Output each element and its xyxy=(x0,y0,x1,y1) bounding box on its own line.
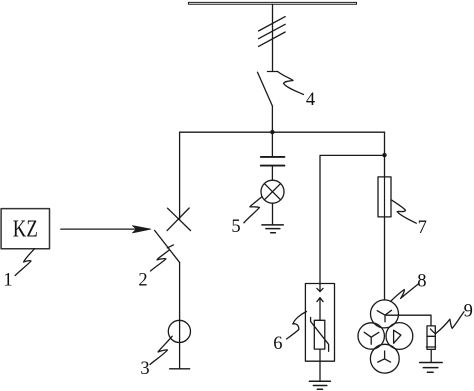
ground (arrester) xyxy=(309,381,330,389)
main horizontal wire xyxy=(180,131,385,133)
wire to damping device xyxy=(386,315,431,326)
leader 9 xyxy=(431,312,465,334)
winding Y (left) xyxy=(364,332,379,344)
wire xyxy=(272,203,274,225)
fuse 7 xyxy=(378,177,391,217)
svg-text:6: 6 xyxy=(273,334,282,354)
svg-text:2: 2 xyxy=(138,271,147,291)
wire xyxy=(271,106,273,132)
lamp 5 xyxy=(261,180,284,203)
svg-text:7: 7 xyxy=(418,218,427,238)
ground (lamp 5) xyxy=(262,225,283,233)
leader 2 xyxy=(151,250,170,271)
svg-text:3: 3 xyxy=(140,359,149,379)
leader 7 xyxy=(391,200,416,223)
three-phase slashes xyxy=(259,17,286,31)
wire xyxy=(179,262,181,369)
breaker 2 xyxy=(155,208,191,262)
junction node xyxy=(270,130,274,134)
wire branch to arrester xyxy=(320,155,385,291)
ground (9) xyxy=(420,363,443,373)
wire xyxy=(430,349,432,362)
leader 8 xyxy=(391,284,419,301)
capacitor xyxy=(261,157,285,166)
wire xyxy=(319,349,321,381)
wire xyxy=(271,132,273,156)
disconnector 4 xyxy=(258,72,278,107)
leader 1 xyxy=(15,249,34,276)
winding Y inverted (bottom) xyxy=(378,351,391,362)
wire xyxy=(271,167,273,181)
svg-text:KZ: KZ xyxy=(13,216,38,243)
control box KZ 1 xyxy=(1,209,49,249)
svg-text:8: 8 xyxy=(417,272,426,292)
leader 4 xyxy=(278,72,304,95)
surge arrester 6 xyxy=(305,284,334,362)
leader 3 xyxy=(150,336,172,364)
leader 6 xyxy=(287,312,307,340)
terminal bar xyxy=(170,368,190,370)
svg-text:9: 9 xyxy=(464,301,473,321)
current transformer 3 xyxy=(168,320,190,342)
busbar xyxy=(188,2,356,4)
wire busbar drop xyxy=(272,4,274,71)
winding Y (top) xyxy=(377,310,391,322)
svg-text:5: 5 xyxy=(231,217,240,237)
damping device 9 xyxy=(426,326,435,350)
leader 5 xyxy=(244,197,262,223)
svg-text:1: 1 xyxy=(3,271,12,291)
wire left branch xyxy=(179,132,181,219)
arrow from KZ xyxy=(61,228,137,230)
wire right drop xyxy=(384,132,386,300)
voltage transformer 8 xyxy=(358,300,413,373)
svg-text:4: 4 xyxy=(306,90,315,110)
junction node xyxy=(382,153,386,157)
winding delta (right) xyxy=(394,330,401,343)
